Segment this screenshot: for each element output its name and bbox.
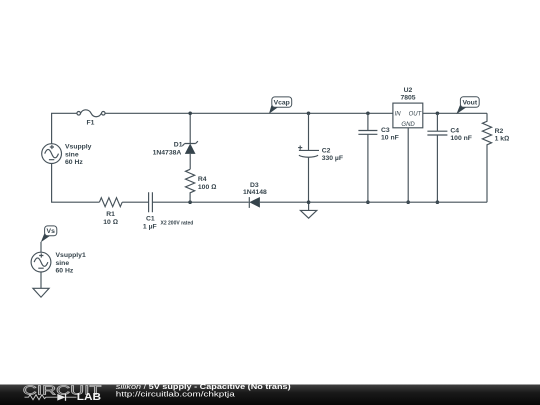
svg-text:C2: C2 bbox=[322, 147, 331, 154]
wire R1 to C1 bbox=[122, 201, 148, 203]
footer bar bbox=[0, 383, 540, 405]
resistor R2 bbox=[482, 113, 509, 202]
voltage source Vsupply bbox=[42, 144, 92, 166]
node flag Vout bbox=[456, 97, 479, 114]
svg-text:OUT: OUT bbox=[409, 111, 423, 117]
ground bottom left bbox=[33, 272, 49, 297]
svg-text:Vcap: Vcap bbox=[274, 99, 290, 106]
wire D3 to ground junction bbox=[260, 201, 309, 203]
wire left vertical lower bbox=[52, 164, 100, 203]
capacitor C3 bbox=[358, 113, 398, 202]
svg-text:330 µF: 330 µF bbox=[322, 155, 343, 162]
svg-text:IN: IN bbox=[395, 111, 402, 117]
svg-text:Vsupply: Vsupply bbox=[65, 144, 92, 151]
svg-text:http://circuitlab.com/chkptja: http://circuitlab.com/chkptja bbox=[116, 390, 235, 398]
svg-text:C4: C4 bbox=[450, 127, 459, 134]
svg-text:Vs: Vs bbox=[47, 228, 56, 235]
capacitor C1 bbox=[143, 192, 193, 230]
svg-text:R1: R1 bbox=[106, 211, 115, 218]
ground mid bbox=[300, 202, 316, 218]
svg-text:X2 200V rated: X2 200V rated bbox=[161, 221, 194, 227]
svg-text:sine: sine bbox=[65, 151, 79, 158]
node ground junction bbox=[307, 200, 311, 204]
wire Vs to Vsupply1 bbox=[40, 242, 42, 252]
fuse F1 bbox=[77, 110, 105, 127]
svg-text:R4: R4 bbox=[198, 176, 207, 183]
svg-text:100 Ω: 100 Ω bbox=[198, 184, 216, 191]
node C3 top junction bbox=[366, 112, 370, 116]
node U2 GND junction bbox=[406, 200, 410, 204]
node D1 top junction bbox=[188, 112, 192, 116]
svg-text:60 Hz: 60 Hz bbox=[65, 159, 83, 166]
svg-text:R2: R2 bbox=[495, 128, 504, 135]
node flag Vs bbox=[41, 226, 57, 242]
node R4 bottom junction bbox=[188, 200, 192, 204]
logo squiggle bbox=[25, 395, 77, 400]
voltage source Vsupply1 bbox=[31, 252, 86, 274]
capacitor C4 bbox=[427, 113, 472, 202]
resistor R1 bbox=[99, 198, 122, 226]
svg-text:GND: GND bbox=[401, 122, 415, 128]
svg-text:1N4738A: 1N4738A bbox=[153, 149, 182, 156]
node C3 bottom junction bbox=[366, 200, 370, 204]
svg-text:C3: C3 bbox=[381, 127, 390, 134]
svg-text:1 µF: 1 µF bbox=[143, 224, 157, 231]
svg-text:60 Hz: 60 Hz bbox=[56, 268, 74, 275]
wire top-left vertical bbox=[52, 113, 77, 143]
voltage regulator U2 7805 bbox=[393, 87, 423, 128]
wire bottom right return bbox=[309, 201, 487, 203]
wire U2 GND pin down bbox=[407, 128, 409, 202]
resistor R4 bbox=[186, 169, 217, 202]
svg-text:100 nF: 100 nF bbox=[450, 135, 472, 142]
svg-text:Vsupply1: Vsupply1 bbox=[56, 252, 86, 259]
svg-text:10 nF: 10 nF bbox=[381, 135, 399, 142]
svg-text:10 Ω: 10 Ω bbox=[103, 219, 118, 226]
node flag Vcap bbox=[269, 97, 292, 114]
wire C1 to D3 bbox=[152, 201, 248, 203]
svg-text:sine: sine bbox=[56, 260, 70, 267]
zener diode D1 bbox=[153, 113, 198, 169]
svg-text:7805: 7805 bbox=[400, 95, 415, 102]
svg-text:D3: D3 bbox=[250, 182, 259, 189]
svg-text:C1: C1 bbox=[146, 215, 155, 222]
node C4 bottom junction bbox=[436, 200, 440, 204]
svg-text:D1: D1 bbox=[174, 142, 183, 149]
capacitor C2 polarized bbox=[298, 113, 343, 202]
svg-text:F1: F1 bbox=[87, 120, 95, 127]
diode D3 bbox=[243, 182, 267, 208]
wire top bbox=[105, 112, 487, 114]
node C4 top junction bbox=[436, 112, 440, 116]
node C2 top junction bbox=[307, 112, 311, 116]
svg-text:Vout: Vout bbox=[462, 99, 477, 106]
svg-text:1N4148: 1N4148 bbox=[243, 189, 267, 196]
svg-text:1 kΩ: 1 kΩ bbox=[495, 135, 510, 142]
svg-text:U2: U2 bbox=[404, 87, 413, 94]
svg-text:LAB: LAB bbox=[77, 392, 101, 403]
